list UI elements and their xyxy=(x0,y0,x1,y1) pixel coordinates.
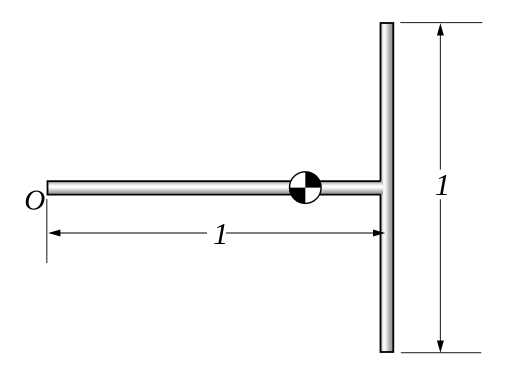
svg-text:O: O xyxy=(24,185,45,217)
svg-text:1: 1 xyxy=(435,167,451,202)
svg-text:1: 1 xyxy=(213,216,229,251)
